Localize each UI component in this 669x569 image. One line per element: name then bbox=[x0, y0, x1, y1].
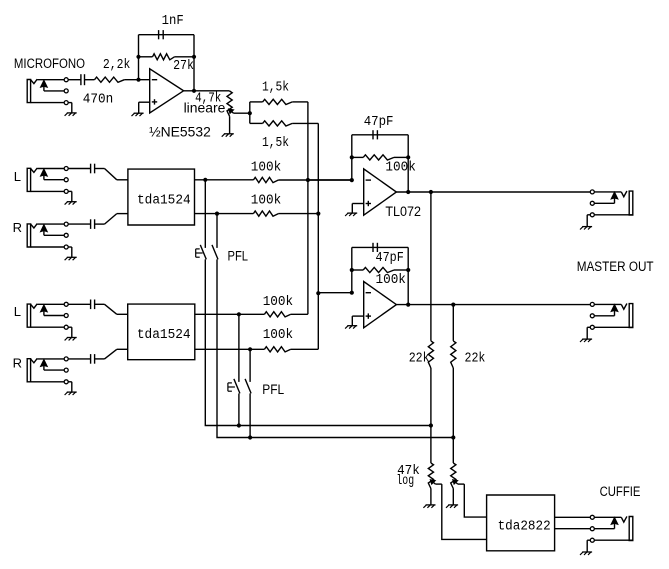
svg-text:tda1524: tda1524 bbox=[137, 328, 191, 343]
svg-text:1,5k: 1,5k bbox=[262, 136, 289, 151]
svg-text:log: log bbox=[396, 474, 414, 489]
svg-text:MICROFONO: MICROFONO bbox=[14, 56, 85, 71]
svg-text:100k: 100k bbox=[385, 160, 415, 175]
svg-text:47pF: 47pF bbox=[364, 115, 394, 130]
svg-text:R: R bbox=[13, 355, 22, 370]
svg-text:1nF: 1nF bbox=[162, 14, 184, 29]
svg-text:R: R bbox=[13, 220, 22, 235]
svg-text:470n: 470n bbox=[83, 92, 113, 107]
svg-text:PFL: PFL bbox=[228, 248, 249, 263]
svg-text:47pF: 47pF bbox=[376, 251, 404, 266]
svg-text:MASTER OUT: MASTER OUT bbox=[577, 259, 654, 274]
svg-text:100k: 100k bbox=[376, 273, 406, 288]
svg-text:100k: 100k bbox=[263, 328, 293, 343]
svg-text:L: L bbox=[14, 304, 21, 319]
svg-text:tda2822: tda2822 bbox=[498, 520, 551, 535]
svg-text:2,2k: 2,2k bbox=[103, 58, 130, 73]
svg-text:CUFFIE: CUFFIE bbox=[600, 484, 641, 499]
svg-text:100k: 100k bbox=[251, 160, 281, 175]
svg-text:100k: 100k bbox=[251, 194, 281, 209]
svg-text:½NE5532: ½NE5532 bbox=[149, 124, 211, 139]
svg-text:L: L bbox=[14, 169, 21, 184]
svg-text:lineare: lineare bbox=[184, 101, 226, 116]
svg-text:TL072: TL072 bbox=[385, 204, 421, 219]
svg-text:100k: 100k bbox=[263, 295, 293, 310]
svg-text:22k: 22k bbox=[465, 352, 486, 367]
svg-text:22k: 22k bbox=[409, 352, 430, 367]
svg-text:PFL: PFL bbox=[262, 382, 284, 397]
svg-text:tda1524: tda1524 bbox=[137, 193, 191, 208]
svg-text:27k: 27k bbox=[173, 59, 194, 74]
svg-text:1,5k: 1,5k bbox=[262, 81, 289, 96]
